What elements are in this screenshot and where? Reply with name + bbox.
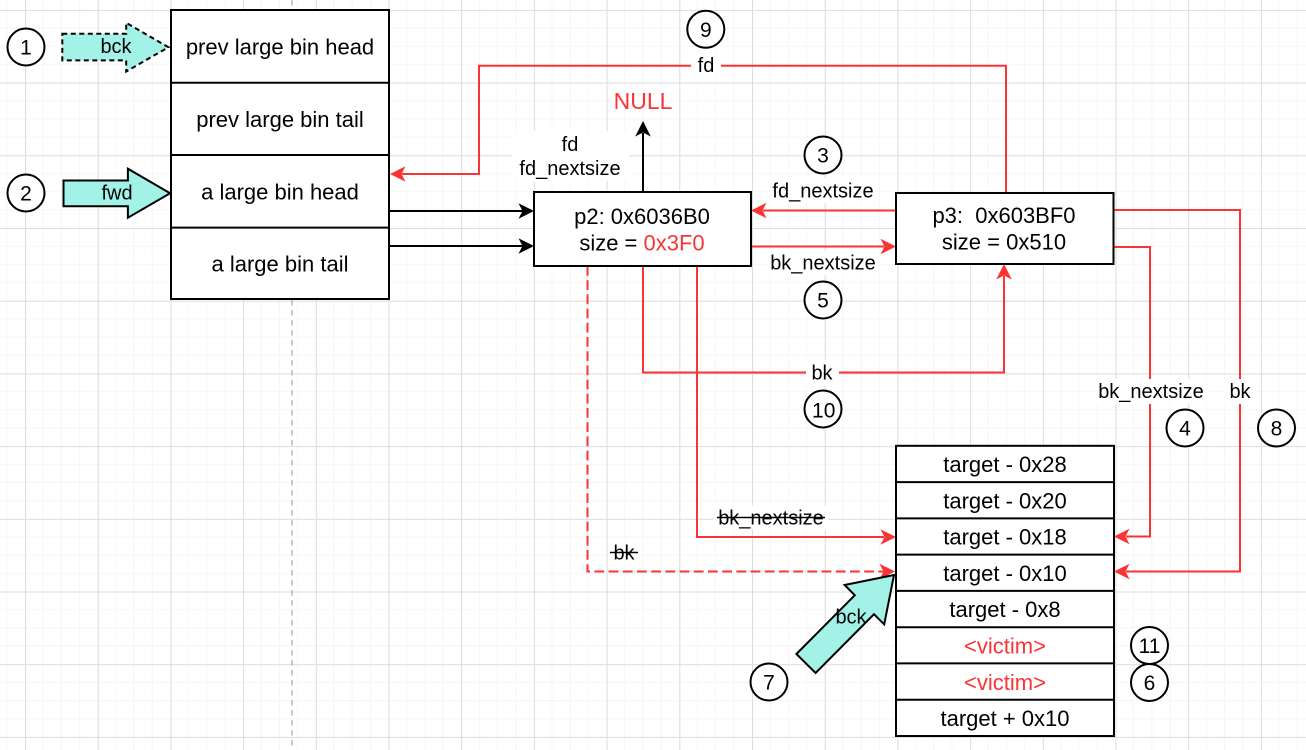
svg-text:fd: fd: [698, 55, 715, 77]
svg-text:target - 0x28: target - 0x28: [943, 452, 1067, 477]
svg-text:target - 0x20: target - 0x20: [943, 488, 1067, 513]
svg-text:11: 11: [1139, 635, 1161, 658]
svg-text:p2: 0x6036B0: p2: 0x6036B0: [574, 204, 710, 229]
svg-text:bk: bk: [811, 363, 833, 385]
svg-text:NULL: NULL: [614, 88, 673, 114]
svg-text:10: 10: [812, 400, 835, 423]
svg-text:bck: bck: [100, 36, 132, 58]
svg-text:fd: fd: [562, 134, 579, 156]
svg-text:2: 2: [20, 183, 32, 206]
svg-text:5: 5: [817, 290, 829, 313]
svg-text:7: 7: [763, 672, 775, 695]
svg-text:4: 4: [1179, 418, 1191, 441]
svg-text:p3: 0x603BF0: p3: 0x603BF0: [932, 203, 1075, 228]
svg-text:fd_nextsize: fd_nextsize: [772, 181, 873, 203]
svg-text:bk_nextsize: bk_nextsize: [770, 253, 876, 275]
svg-text:bck: bck: [835, 607, 867, 629]
svg-text:size = 0x510: size = 0x510: [942, 229, 1066, 254]
svg-text:1: 1: [20, 37, 32, 60]
svg-text:target - 0x18: target - 0x18: [943, 525, 1067, 550]
svg-text:bk: bk: [1229, 381, 1251, 403]
svg-text:target + 0x10: target + 0x10: [940, 706, 1069, 731]
svg-text:prev large bin head: prev large bin head: [186, 35, 374, 60]
svg-text:bk_nextsize: bk_nextsize: [1098, 381, 1204, 403]
svg-text:3: 3: [817, 145, 829, 168]
svg-text:fd_nextsize: fd_nextsize: [519, 158, 620, 180]
svg-text:a large bin tail: a large bin tail: [212, 252, 349, 277]
svg-text:target - 0x10: target - 0x10: [943, 561, 1067, 586]
svg-text:<victim>: <victim>: [964, 634, 1046, 659]
svg-text:<victim>: <victim>: [964, 670, 1046, 695]
svg-text:fwd: fwd: [101, 183, 132, 205]
svg-text:target - 0x8: target - 0x8: [949, 597, 1060, 622]
svg-text:bk: bk: [613, 543, 635, 565]
svg-text:bk_nextsize: bk_nextsize: [718, 508, 824, 530]
svg-text:prev large bin tail: prev large bin tail: [196, 107, 364, 132]
svg-text:a large bin head: a large bin head: [201, 180, 359, 205]
svg-text:6: 6: [1144, 672, 1156, 695]
svg-text:9: 9: [700, 19, 712, 42]
svg-text:size = 0x3F0: size = 0x3F0: [579, 230, 704, 255]
svg-text:8: 8: [1271, 418, 1283, 441]
